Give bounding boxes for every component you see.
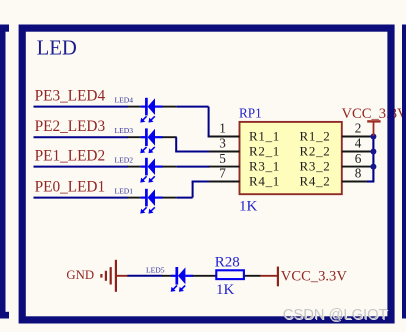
outer sheet border right bar [402,25,406,319]
LED D5 emission arrows [173,286,177,290]
svg-text:PE2_LED3: PE2_LED3 [35,118,106,135]
svg-text:1: 1 [219,121,226,136]
outer sheet border bottom-left stub [0,312,9,319]
wire VCC bus vertical (pins 2,4,6,8) [372,137,374,182]
resistor R28 body [216,270,244,279]
power port VCC_3.3V stem (top) [373,121,375,135]
svg-text:RP1: RP1 [239,105,262,120]
wire PE0_LED1 vertical jog [192,182,194,198]
wire PE2_LED3 horizontal into pin 3 [175,151,210,153]
svg-text:8: 8 [355,166,362,181]
LED D1 (LED1) [141,197,147,199]
svg-text:LED5: LED5 [146,266,165,275]
outer sheet border top-left stub [0,25,9,32]
power port VCC_3.3V bar (bottom) [277,267,279,287]
pin lead left of LED D1 [128,197,141,199]
svg-text:5: 5 [219,151,226,166]
power port VCC_3.3V bar (top) [367,120,380,122]
svg-text:PE0_LED1: PE0_LED1 [35,178,106,195]
power port VCC_3.3V lead (bottom) [260,275,278,277]
wire PE3_LED4 horizontal to jog [177,106,209,108]
wire PE2_LED3 horizontal to jog [175,136,177,138]
junction dot at y=136.5 [370,134,376,140]
LED D2 emission arrows [143,176,147,180]
RP1 pin 8 lead [342,181,374,183]
pin lead left of LED D3 [128,136,141,138]
wire PE3_LED4 vertical jog [208,107,210,137]
pin lead right of LED D1 [163,197,177,199]
wire PE0_LED1 horizontal to jog [177,197,193,199]
RP1 pin 2 lead [342,136,374,138]
svg-text:R2_2: R2_2 [300,144,331,159]
wire PE0_LED1 from label to LED [34,197,129,199]
svg-text:2: 2 [355,121,362,136]
LED D2 (LED2) [141,166,147,168]
wire PE3_LED4 horizontal into pin 1 [208,136,210,138]
wire PE0_LED1 horizontal into pin 7 [192,181,210,183]
pin lead right of LED D3 [163,136,177,138]
svg-text:6: 6 [355,151,362,166]
LED D4 (LED4) [141,105,147,107]
svg-text:R4_2: R4_2 [300,174,331,189]
resistor pack RP1 body [240,122,342,194]
junction dot at y=151.5 [370,149,376,155]
svg-text:R3_1: R3_1 [249,159,280,174]
svg-text:LED4: LED4 [115,96,134,105]
svg-text:LED1: LED1 [115,187,134,196]
svg-text:4: 4 [355,136,362,151]
pin lead right of R28 [245,275,261,277]
RP1 pin 7 lead [209,181,240,183]
svg-text:LED3: LED3 [115,126,134,135]
LED D3 emission arrows [143,147,147,151]
wire PE1_LED2 from label to LED [34,166,129,168]
LED D3 (LED3) [141,136,147,138]
svg-text:LED: LED [37,37,77,59]
svg-text:7: 7 [219,166,226,181]
svg-text:PE3_LED4: PE3_LED4 [35,87,106,104]
LED D1 emission arrows [143,207,147,211]
wire corner into pin 8 [367,180,374,182]
svg-text:3: 3 [219,136,226,151]
svg-text:CSDN @LGIOT: CSDN @LGIOT [283,307,388,323]
wire PE2_LED3 vertical jog [175,137,177,151]
svg-text:R28: R28 [215,255,240,271]
LED D5 (LED5) [171,275,177,277]
wire PE3_LED4 from label to LED [34,106,129,108]
RP1 pin 6 lead [342,166,374,168]
outer sheet border left bar [0,25,6,319]
pin lead right of LED D4 [163,106,177,108]
pin lead right of LED D2 [163,166,177,168]
svg-text:R1_2: R1_2 [300,129,331,144]
RP1 pin 1 lead [209,136,240,138]
LED D4 emission arrows [143,116,147,120]
svg-text:GND: GND [66,268,94,282]
svg-text:LED2: LED2 [115,156,134,165]
pin lead right of LED5 to R28 [193,275,217,277]
junction dot at y=166.6 [370,164,376,170]
pin lead left of LED5 [162,275,171,277]
svg-text:1K: 1K [216,282,235,298]
wire GND to LED5 [128,275,163,277]
svg-text:VCC_3.3V: VCC_3.3V [281,268,348,284]
pin lead left of LED D4 [128,106,141,108]
pin lead left of LED D2 [128,166,141,168]
RP1 pin 5 lead [209,166,240,168]
svg-text:R1_1: R1_1 [249,129,280,144]
svg-text:R3_2: R3_2 [300,159,331,174]
ground symbol lead [117,275,128,277]
svg-text:1K: 1K [239,199,258,215]
svg-text:PE1_LED2: PE1_LED2 [35,147,106,164]
svg-text:R4_1: R4_1 [249,174,280,189]
wire PE2_LED3 from label to LED [34,136,129,138]
wire PE1_LED2 to RP1 pin 5 [177,166,210,168]
main schematic frame [22,28,391,320]
ground symbol (power ground bars) [100,274,102,278]
RP1 pin 4 lead [342,151,374,153]
svg-text:R2_1: R2_1 [249,144,280,159]
RP1 pin 3 lead [209,151,240,153]
svg-text:VCC_3.3V: VCC_3.3V [342,106,406,122]
